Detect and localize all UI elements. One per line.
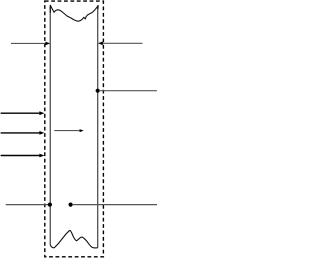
wire bottom-left <box>6 204 49 206</box>
node right wall dot <box>96 89 100 93</box>
arrow top-right wire <box>103 42 143 44</box>
break line bottom <box>50 231 97 248</box>
wire right from node <box>99 90 157 92</box>
right wall line <box>97 7 99 248</box>
arrow top-left head <box>45 42 50 46</box>
node left wall dot <box>48 203 52 207</box>
arrow top-left wire <box>11 42 46 44</box>
arrow top-right head <box>98 41 103 45</box>
arrow mid-left 1 wire <box>1 112 40 114</box>
arrow mid-left 2 head <box>39 131 44 135</box>
break line top <box>50 5 98 21</box>
arrow mid-left 1 head <box>39 111 44 115</box>
control volume dashed boundary <box>45 1 104 257</box>
left wall line <box>49 6 51 245</box>
arrow mid-left 2 wire <box>1 132 40 134</box>
node interior dot <box>69 203 73 207</box>
wire bottom-right from interior node <box>72 204 157 206</box>
arrow mid-left 3 head <box>39 154 44 158</box>
arrow mid-left 3 wire <box>1 155 40 157</box>
arrow inner channel head <box>80 129 84 132</box>
arrow inner channel wire <box>54 130 80 132</box>
